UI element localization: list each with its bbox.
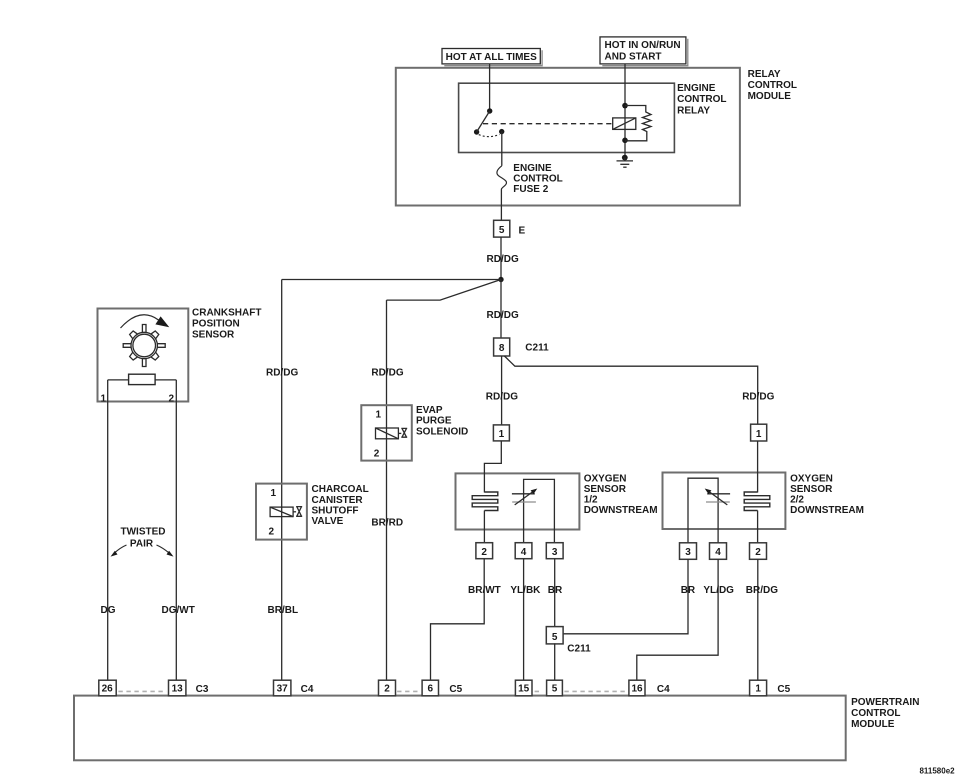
svg-text:POWERTRAIN: POWERTRAIN [851, 697, 919, 708]
bus label HOT IN ON/RUN AND START [600, 37, 688, 66]
bus label HOT AT ALL TIMES [442, 49, 542, 66]
svg-text:RD/DG: RD/DG [486, 391, 518, 402]
svg-text:BR: BR [548, 585, 563, 596]
wire DG from sensor pin 1 to PCM pin 26 [101, 380, 116, 682]
dashed connector strip 26-13 [118, 690, 166, 692]
svg-text:4: 4 [521, 547, 527, 558]
oxygen sensor 2/2 downstream box [663, 473, 864, 530]
relay control module box [396, 68, 797, 206]
svg-text:2: 2 [169, 394, 175, 405]
wire from right connector 1 into oxygen sensor 2/2 heater [757, 441, 759, 493]
wire DG/WT from sensor pin 2 to PCM pin 13 [162, 380, 195, 682]
svg-text:C5: C5 [777, 684, 790, 695]
svg-text:6: 6 [428, 684, 434, 695]
oxygen sensor 1/2 sensing element [512, 479, 555, 542]
wire from left connector 1 into oxygen sensor heater [484, 441, 501, 493]
charcoal canister shutoff valve [256, 484, 369, 540]
svg-text:1: 1 [271, 488, 277, 499]
svg-text:DG/WT: DG/WT [162, 605, 195, 616]
svg-text:SHUTOFF: SHUTOFF [312, 505, 359, 516]
svg-text:ENGINE: ENGINE [677, 83, 716, 94]
svg-text:OXYGEN: OXYGEN [584, 474, 627, 485]
wire RD/DG then BR/RD through evap solenoid to PCM pin 2 [371, 300, 403, 681]
engine control relay box [459, 83, 727, 153]
PCM pin 1 [750, 680, 791, 696]
connector C211 pin 5 [546, 627, 591, 655]
svg-text:13: 13 [172, 684, 184, 695]
dashed connector strip 5-16 [535, 690, 627, 692]
crankshaft sensor element [129, 374, 156, 384]
svg-text:8: 8 [499, 343, 505, 354]
svg-text:3: 3 [685, 547, 691, 558]
svg-text:E: E [519, 226, 526, 237]
svg-text:PURGE: PURGE [416, 416, 452, 427]
wire junction to charcoal canister valve branch [282, 279, 501, 281]
PCM pin 13 [169, 680, 209, 696]
svg-text:1: 1 [756, 429, 762, 440]
svg-text:2: 2 [269, 527, 275, 538]
svg-text:C4: C4 [657, 684, 670, 695]
svg-text:SOLENOID: SOLENOID [416, 427, 468, 438]
svg-text:CHARCOAL: CHARCOAL [312, 484, 369, 495]
svg-text:CONTROL: CONTROL [748, 80, 797, 91]
evap purge solenoid [361, 405, 468, 461]
relay suppression resistor [625, 106, 651, 141]
PCM pin 6 [422, 680, 463, 696]
svg-text:2: 2 [481, 547, 487, 558]
wire BR from O2 1/2 pin 3 to C211 pin 5 [548, 559, 563, 627]
connector 8 C211 [494, 338, 549, 356]
svg-text:HOT AT ALL TIMES: HOT AT ALL TIMES [446, 52, 537, 63]
oxygen sensor 2/2 sensing element [688, 478, 730, 543]
wire RD/DG junction down to connector 8 [487, 280, 519, 339]
crankshaft sensor gear icon [121, 315, 170, 367]
twisted pair note [111, 527, 174, 557]
svg-text:5: 5 [499, 225, 505, 236]
svg-text:C211: C211 [525, 343, 549, 354]
svg-text:AND START: AND START [605, 52, 662, 63]
svg-text:SENSOR: SENSOR [584, 484, 627, 495]
svg-text:CRANKSHAFT: CRANKSHAFT [192, 308, 261, 319]
powertrain control module box [74, 696, 919, 761]
svg-text:C3: C3 [196, 684, 209, 695]
wire from fuse to connector 5 E [500, 190, 502, 221]
svg-text:RD/DG: RD/DG [487, 310, 519, 321]
svg-text:YL/BK: YL/BK [510, 585, 541, 596]
svg-text:POSITION: POSITION [192, 319, 240, 330]
svg-text:RELAY: RELAY [748, 69, 781, 80]
wire from C211 pin 5 to PCM pin 5 [554, 643, 556, 681]
wire RD/DG from connector E to junction [487, 237, 519, 279]
oxygen sensor 2/2 pin 4 [710, 543, 727, 560]
wire YL/BK from O2 1/2 pin 4 to PCM pin 15 [510, 559, 541, 682]
wire BR from O2 2/2 pin 3 to C211 pin 5 [563, 559, 696, 634]
svg-text:ENGINE: ENGINE [513, 163, 552, 174]
oxygen sensor 1/2 pin 2 [476, 543, 493, 559]
oxygen sensor 1/2 pin 4 [515, 543, 532, 559]
svg-text:26: 26 [102, 684, 114, 695]
PCM pin 2 [379, 680, 396, 696]
ground [617, 155, 634, 167]
svg-text:1/2: 1/2 [584, 495, 598, 506]
svg-text:RD/DG: RD/DG [371, 368, 403, 379]
svg-text:C211: C211 [567, 644, 591, 655]
svg-text:C5: C5 [449, 684, 462, 695]
svg-text:SENSOR: SENSOR [192, 330, 235, 341]
svg-text:SENSOR: SENSOR [790, 484, 833, 495]
svg-text:PAIR: PAIR [130, 539, 154, 550]
svg-text:1: 1 [376, 410, 382, 421]
PCM pin 15 [515, 680, 532, 696]
svg-text:MODULE: MODULE [851, 719, 895, 730]
svg-text:BR/RD: BR/RD [371, 517, 403, 528]
connector 1 (right, oxygen sensor 2/2) [751, 424, 767, 441]
engine control fuse 2 [497, 163, 563, 195]
connector 1 (left, oxygen sensor 1/2) [493, 425, 509, 441]
svg-text:BR/DG: BR/DG [746, 585, 778, 596]
svg-text:2: 2 [374, 448, 380, 459]
oxygen sensor 1/2 downstream box [456, 473, 658, 529]
svg-text:DOWNSTREAM: DOWNSTREAM [584, 505, 658, 516]
svg-text:4: 4 [715, 547, 721, 558]
svg-text:HOT IN ON/RUN: HOT IN ON/RUN [605, 40, 681, 51]
svg-text:CONTROL: CONTROL [851, 708, 900, 719]
svg-text:3: 3 [552, 547, 558, 558]
oxygen sensor 2/2 pin 2 [750, 543, 767, 560]
wire from HOT AT ALL TIMES to relay switch [489, 64, 491, 111]
svg-text:BR/WT: BR/WT [468, 585, 501, 596]
svg-text:RELAY: RELAY [677, 106, 710, 117]
svg-text:C4: C4 [301, 684, 314, 695]
svg-text:BR/BL: BR/BL [268, 605, 299, 616]
oxygen sensor 2/2 pin 3 [680, 543, 697, 560]
svg-text:5: 5 [552, 632, 558, 643]
wire junction diagonal to evap purge solenoid branch [387, 280, 502, 301]
svg-text:CONTROL: CONTROL [513, 173, 562, 184]
svg-text:2: 2 [384, 684, 390, 695]
relay switch contacts [474, 108, 505, 136]
wire YL/DG from O2 2/2 pin 4 to PCM pin 16 [637, 559, 734, 681]
svg-text:2/2: 2/2 [790, 495, 804, 506]
PCM pin 37 [274, 680, 314, 696]
svg-text:CONTROL: CONTROL [677, 94, 726, 105]
dashed connector strip 2-6 [397, 690, 421, 692]
svg-text:1: 1 [755, 684, 761, 695]
relay coil [613, 103, 636, 143]
svg-text:5: 5 [552, 684, 558, 695]
PCM pin 5 [547, 680, 563, 696]
svg-text:811580e2: 811580e2 [919, 767, 955, 776]
svg-text:CANISTER: CANISTER [312, 495, 364, 506]
svg-text:1: 1 [499, 429, 505, 440]
svg-text:OXYGEN: OXYGEN [790, 474, 833, 485]
svg-text:VALVE: VALVE [312, 516, 344, 527]
svg-text:EVAP: EVAP [416, 405, 443, 416]
svg-text:DOWNSTREAM: DOWNSTREAM [790, 505, 864, 516]
wire branch from C211 to right oxygen sensor [504, 356, 774, 424]
svg-text:RD/DG: RD/DG [487, 254, 519, 265]
svg-text:16: 16 [631, 684, 643, 695]
junction node [498, 277, 503, 282]
oxygen sensor 2/2 heater element [744, 492, 770, 543]
PCM pin 26 [99, 680, 116, 696]
connector 5 E [494, 220, 526, 237]
PCM pin 16 [629, 680, 670, 696]
crankshaft sensor element link [108, 379, 177, 381]
wire from HOT IN ON/RUN to relay coil and ground [624, 64, 626, 158]
oxygen sensor 1/2 heater element [472, 492, 498, 543]
wire from relay switch to fuse [501, 131, 503, 166]
svg-text:MODULE: MODULE [748, 91, 792, 102]
svg-text:15: 15 [518, 684, 530, 695]
svg-text:RD/DG: RD/DG [742, 391, 774, 402]
relay control dashed line [483, 123, 613, 125]
svg-text:1: 1 [101, 394, 107, 405]
svg-text:2: 2 [755, 547, 761, 558]
wire BR/WT from O2 1/2 pin 2 to PCM pin 6 [431, 559, 501, 682]
crankshaft position sensor [98, 308, 262, 402]
svg-text:BR: BR [681, 585, 696, 596]
wire RD/DG connector 8 to left connector 1 [486, 356, 518, 425]
wire BR/DG from O2 2/2 pin 2 to PCM pin 1 [746, 559, 778, 681]
svg-text:37: 37 [277, 684, 289, 695]
svg-text:FUSE 2: FUSE 2 [513, 184, 548, 195]
svg-text:TWISTED: TWISTED [121, 527, 166, 538]
svg-text:YL/DG: YL/DG [703, 585, 734, 596]
svg-text:DG: DG [101, 605, 116, 616]
svg-text:RD/DG: RD/DG [266, 368, 298, 379]
wire RD/DG then BR/BL through charcoal valve to PCM pin 37 [266, 280, 298, 682]
oxygen sensor 1/2 pin 3 [546, 543, 563, 559]
